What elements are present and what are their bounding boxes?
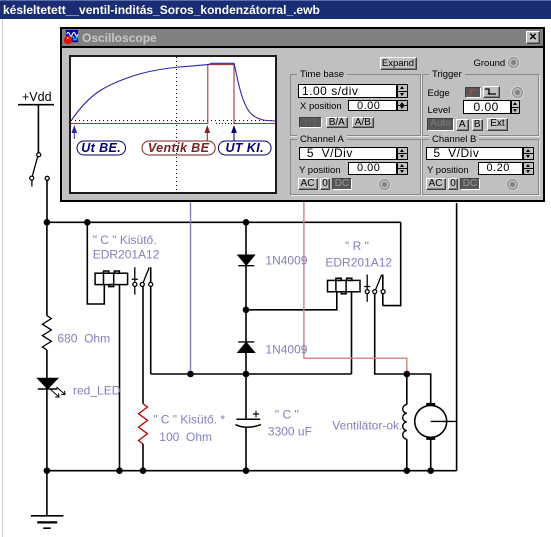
wire R100 to bottom bus	[142, 444, 144, 471]
wire switch to node A	[46, 180, 48, 222]
wire left branch upper	[46, 222, 48, 315]
relay U2 contacts	[364, 275, 385, 302]
svg-text:+Vdd: +Vdd	[22, 90, 52, 104]
wire inductor to bottom bus	[406, 439, 408, 471]
wire relay U1 coil right to bottom bus	[119, 285, 121, 471]
wire capacitor to bottom bus	[245, 428, 247, 471]
wire node B to capacitor	[245, 374, 247, 419]
svg-text:680 Ohm: 680 Ohm	[57, 332, 110, 346]
wire node B horizontal	[151, 373, 352, 375]
svg-text:UT KI.: UT KI.	[225, 141, 264, 155]
svg-text:EDR201A12: EDR201A12	[93, 248, 160, 262]
svg-text:Ventik BE: Ventik BE	[148, 141, 210, 155]
motor M1	[415, 404, 457, 438]
switch S1 (open)	[30, 153, 50, 187]
wire relay U1 NO contact down	[150, 267, 152, 282]
node B cap dot	[243, 371, 250, 378]
wire top bus	[47, 221, 401, 223]
graticule dotted horizontal	[71, 120, 275, 122]
node motor dot	[404, 371, 411, 378]
LED red_LED	[38, 378, 65, 397]
relay U1 coil "C"	[95, 271, 128, 287]
dotted marker on baseline	[216, 123, 235, 125]
wire motor node to motor	[407, 374, 431, 404]
Time base group	[290, 74, 421, 136]
svg-text:" C ": " C "	[275, 407, 299, 421]
node A dot	[44, 219, 51, 226]
component labels	[57, 233, 402, 444]
svg-text:Ut BE.: Ut BE.	[81, 141, 121, 155]
graticule dotted vertical	[176, 57, 178, 192]
svg-text:red_LED: red_LED	[73, 383, 121, 397]
annotation bubble Ut BE	[77, 141, 126, 155]
annotation arrow Ventik BE	[205, 127, 209, 141]
wire D2 to node B	[245, 352, 247, 374]
wire node C to relay U2 coil	[246, 292, 337, 310]
diode D2 1N4009	[238, 342, 254, 352]
Trigger group	[422, 74, 539, 136]
wire D1 to node C	[245, 266, 247, 342]
Channel B group	[422, 139, 539, 196]
resistor R680	[42, 316, 51, 350]
resistor R100 (red)	[139, 404, 148, 444]
wire resistor to LED	[46, 350, 48, 378]
svg-text:100 Ohm: 100 Ohm	[159, 430, 212, 444]
annotation bubble UT KI	[218, 141, 271, 155]
svg-text:EDR201A12: EDR201A12	[325, 256, 392, 270]
wire motor to bottom bus	[430, 439, 432, 471]
Ground	[474, 58, 506, 69]
probe wire red (channel B)	[304, 202, 407, 371]
wire Vdd to switch	[37, 105, 39, 153]
wire right bus upper	[383, 222, 401, 305]
annotation arrow Ut BE	[72, 127, 76, 140]
node diode top dot	[243, 219, 250, 226]
svg-text:" C " Kisütő. *: " C " Kisütő. *	[153, 413, 225, 427]
power rail +Vdd	[18, 90, 54, 105]
bottom bus dots	[44, 467, 51, 474]
wire diode column top	[245, 222, 247, 255]
svg-text:Ventilátor-ok.: Ventilátor-ok.	[332, 419, 402, 433]
capacitor C1 3300uF	[236, 411, 262, 428]
trace channel A blue	[71, 63, 275, 121]
wire LED to bottom bus	[46, 389, 48, 471]
annotation arrow UT KI	[232, 127, 236, 141]
svg-text:1N4009: 1N4009	[265, 254, 307, 268]
wire motor node down	[406, 374, 408, 405]
svg-text:" R ": " R "	[345, 239, 369, 253]
node C dot	[243, 307, 250, 314]
Channel A group	[290, 139, 421, 196]
wire main right vertical	[456, 203, 458, 471]
probe wire blue (channel A)	[190, 202, 192, 374]
trace channel B red	[71, 65, 275, 124]
inductor L1 (motor field)	[403, 405, 407, 440]
wire relay U1 common to resistor R100	[142, 286, 144, 403]
svg-text:" C " Kisütő.: " C " Kisütő.	[93, 233, 157, 247]
svg-text:3300 uF: 3300 uF	[268, 424, 312, 438]
svg-text:1N4009: 1N4009	[265, 342, 307, 356]
relay U2 coil "R"	[328, 278, 361, 294]
scope screen	[69, 55, 277, 194]
wire relay U2 NO contact to right bus	[382, 275, 384, 306]
annotation bubble Ventik BE	[142, 141, 215, 155]
ground	[31, 471, 64, 529]
node B probe dot	[187, 371, 194, 378]
wire relay U1 coil left to top bus	[87, 222, 104, 304]
wire relay U2 coil right to node B	[351, 292, 353, 374]
Expand button	[380, 57, 417, 71]
node coil1 dot	[84, 219, 91, 226]
wire relay U2 common to motor node	[375, 293, 407, 374]
diode D1 1N4009	[238, 255, 254, 266]
relay U1 contacts	[132, 267, 153, 294]
wire bottom bus	[47, 470, 457, 472]
